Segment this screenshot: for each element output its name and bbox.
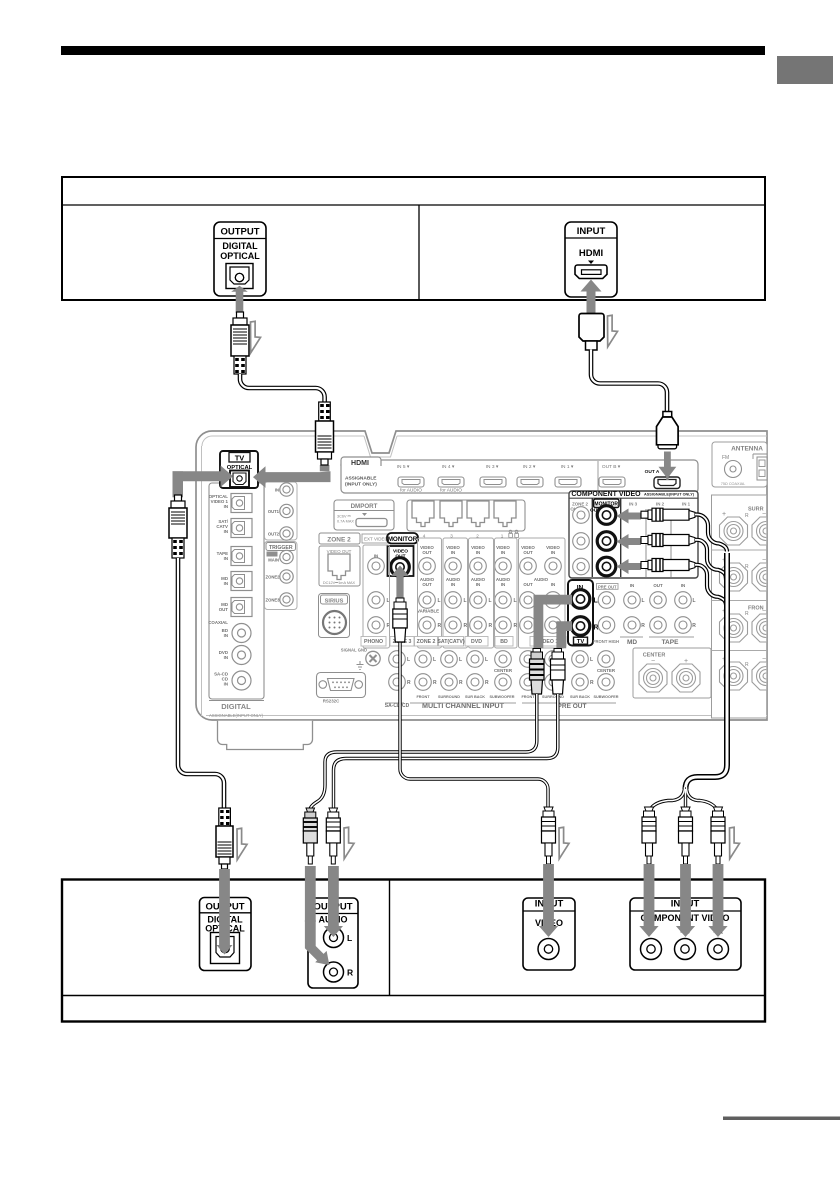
svg-text:TRIGGER: TRIGGER [269,545,293,551]
svg-text:SIRIUS: SIRIUS [325,599,344,605]
bottom box [62,880,765,1022]
svg-text:IN: IN [224,581,228,586]
svg-text:ZONE2: ZONE2 [266,575,281,580]
svg-text:SA-CD/CD: SA-CD/CD [385,703,410,709]
gray arrow up into monitor video out [391,566,409,599]
optical cable from TV down to receiver [240,374,325,403]
svg-text:IN: IN [224,504,228,509]
receiver outline [196,431,767,720]
DIGITAL section box [209,483,264,718]
component cables to bundle [695,515,727,605]
svg-text:75Ω COAXIAL: 75Ω COAXIAL [721,482,746,486]
svg-text:MULTI CHANNEL INPUT: MULTI CHANNEL INPUT [422,701,505,710]
svg-text:PRE OUT: PRE OUT [558,703,587,710]
svg-text:0.7A MAX: 0.7A MAX [337,520,354,524]
svg-text:for AUDIO: for AUDIO [440,488,462,494]
svg-text:FRONT: FRONT [521,695,535,699]
svg-text:AUDIO: AUDIO [534,577,549,582]
left long optical cable gray elbow arrow into TV OPTICAL [173,466,234,488]
svg-text:SURROUND: SURROUND [438,695,460,699]
audio plug L (striped) into elbow [530,649,545,695]
optical plug below TV output (pointing up) [231,312,249,374]
svg-text:3C6V ⎓: 3C6V ⎓ [337,515,351,519]
gray arrow up into TV optical jack [231,286,248,313]
svg-text:(INPUT ONLY): (INPUT ONLY) [345,482,377,488]
svg-text:L: L [514,598,517,604]
MD / TAPE columns [620,583,696,646]
svg-text:OUT A: OUT A [645,469,660,475]
multi channel / pre out grid [385,651,619,710]
long optical cable down the left [178,558,224,808]
svg-text:IN: IN [275,488,279,493]
TV box divider [418,205,420,300]
svg-text:IN: IN [224,556,228,561]
svg-text:ASSIGNABLE(INPUT ONLY): ASSIGNABLE(INPUT ONLY) [644,493,695,497]
svg-text:SUBWOOFER: SUBWOOFER [593,695,618,699]
svg-text:L: L [459,657,462,663]
svg-text:DMPORT: DMPORT [351,503,378,510]
svg-text:IN: IN [501,582,505,587]
svg-text:R: R [745,513,749,519]
svg-text:IN 3: IN 3 [629,502,638,507]
svg-text:OUT2: OUT2 [268,532,280,537]
RS232C [317,673,366,704]
EXT VIDEO label [362,534,390,543]
SIRIUS [319,594,350,638]
outline arrow beside HDMI plug [608,315,618,347]
HDMI section on receiver [341,457,698,494]
svg-text:R: R [438,623,442,629]
svg-text:OUT: OUT [523,550,533,555]
svg-text:FRONT HIGH: FRONT HIGH [593,639,619,644]
gray shaft+arrow from bottom optical plug into panel jack [219,869,230,945]
svg-text:FM: FM [722,455,729,461]
svg-text:R: R [745,662,749,668]
left optical plug (pointing down) [169,495,187,558]
svg-text:SAT(CATV): SAT(CATV) [437,639,464,645]
RJ45 block [407,500,525,539]
COMPONENT VIDEO section [569,491,698,578]
svg-text:HDMI: HDMI [351,460,369,467]
svg-text:DIGITAL: DIGITAL [221,702,251,711]
TV outline box [62,177,765,300]
bottom audio plug L (striped) [303,808,317,864]
svg-text:MONITOR: MONITOR [388,536,418,543]
svg-text:COAXIAL: COAXIAL [208,620,228,625]
TV OUTPUT DIGITAL OPTICAL panel [214,222,266,296]
svg-text:ZONE3: ZONE3 [266,598,281,603]
svg-text:for AUDIO: for AUDIO [400,488,422,494]
svg-text:IN: IN [451,550,455,555]
svg-text:L: L [464,598,467,604]
svg-text:ASSIGNABLE(INPUT ONLY): ASSIGNABLE(INPUT ONLY) [209,713,264,718]
svg-text:L: L [641,598,644,604]
MONITOR VIDEO OUT highlight [387,533,418,576]
svg-text:IN: IN [224,529,228,534]
gray arrow from HDMI plug into OUT A [658,452,676,479]
svg-text:L: L [433,657,436,663]
svg-text:DIGITAL: DIGITAL [222,241,258,251]
gray elbow from TV audio L jack to plug [534,595,573,649]
bottom audio plug R (white) [326,808,340,864]
svg-text:SUR BACK: SUR BACK [570,695,590,699]
svg-text:OUT: OUT [422,550,432,555]
TV OPTICAL highlight box on receiver [220,451,258,488]
svg-text:IN: IN [681,583,685,588]
svg-text:SUBWOOFER: SUBWOOFER [489,695,514,699]
top black title bar [61,46,765,55]
DIGITAL optical jacks [208,494,252,691]
video/audio grid [368,545,568,633]
svg-text:R: R [485,680,489,686]
svg-text:OPTICAL: OPTICAL [220,251,260,261]
svg-text:+: + [722,511,726,518]
svg-text:R: R [692,623,696,629]
svg-text:R: R [745,611,749,617]
audio pair cables down-left and to bottom plugs [310,694,558,810]
svg-text:L: L [347,933,352,943]
svg-text:VARIABLE: VARIABLE [417,609,439,614]
outline arrow beside optical plug [251,321,261,353]
svg-text:IN: IN [476,550,480,555]
TV INPUT HDMI panel [565,222,617,297]
svg-text:OUTPUT: OUTPUT [220,227,259,238]
right speaker terminal field (clipped at panel edge) [712,495,781,718]
svg-text:IN 4 ▾: IN 4 ▾ [442,464,455,470]
gray shafts from audio plugs into AUDIO panel [305,866,316,922]
svg-text:PRE OUT: PRE OUT [598,584,617,589]
svg-text:R: R [464,623,468,629]
bottom INPUT COMPONENT VIDEO panel [630,898,741,970]
HDMI plug below TV input [579,314,604,351]
optical plug 2 from TV (pointing down) with gray elbow arrow [320,465,330,471]
ANTENNA section [712,442,767,487]
svg-text:R: R [641,623,645,629]
svg-text:BD: BD [500,639,508,645]
svg-text:OUT: OUT [523,582,533,587]
svg-text:IN 5 ▾: IN 5 ▾ [397,464,410,470]
svg-text:PHONO: PHONO [364,639,383,645]
CENTER speaker terminals [633,648,711,698]
svg-text:L: L [692,598,695,604]
component plugs (horizontal, pointing left) [641,508,695,521]
svg-text:IN: IN [451,582,455,587]
right edge gray index tab [777,56,833,84]
svg-text:IN 2: IN 2 [656,502,665,507]
svg-text:L: L [485,657,488,663]
PRE OUT labels [593,584,619,645]
svg-text:R: R [459,680,463,686]
svg-text:IN: IN [501,550,505,555]
audio plug R (white) into elbow [551,649,566,695]
svg-text:IN: IN [551,550,555,555]
video plug below monitor out [393,598,407,642]
svg-text:INPUT: INPUT [577,226,606,237]
svg-text:IN 1: IN 1 [682,502,691,507]
svg-text:HDMI: HDMI [579,248,603,259]
svg-text:ANTENNA: ANTENNA [731,446,763,453]
svg-text:SUR BACK: SUR BACK [465,695,485,699]
svg-text:TV: TV [235,454,245,463]
svg-text:SIGNAL GND: SIGNAL GND [341,648,367,653]
svg-text:IN: IN [551,582,555,587]
svg-text:IN 1 ▾: IN 1 ▾ [561,464,574,470]
svg-text:DVD: DVD [471,639,482,645]
svg-text:R: R [347,968,353,978]
svg-text:OUT: OUT [653,583,663,588]
IR/trigger column [265,482,298,610]
gray arrow up into TV HDMI jack [581,280,602,315]
svg-text:COMPONENT VIDEO: COMPONENT VIDEO [571,491,641,498]
svg-text:OUT: OUT [422,582,432,587]
svg-text:IN 2 ▾: IN 2 ▾ [523,464,536,470]
svg-text:VIDEO OUT: VIDEO OUT [327,549,352,554]
HDMI plug 2 into receiver OUT A [657,412,679,449]
gray arrows into component MONITOR OUT jacks [617,509,642,524]
DMPORT [334,500,394,530]
svg-text:SURROUND: SURROUND [542,695,564,699]
svg-text:OUT B ▾: OUT B ▾ [602,464,621,470]
input group label boxes [361,637,566,647]
svg-text:OUT: OUT [219,607,229,612]
svg-text:ASSIGNABLE: ASSIGNABLE [345,476,377,482]
receiver foot [218,721,313,750]
HDMI cable down to receiver [591,350,667,413]
svg-text:IN: IN [224,633,228,638]
svg-text:L: L [438,598,441,604]
video cable from monitor out to bottom [400,640,548,807]
svg-text:EXT VIDEO: EXT VIDEO [364,537,388,542]
svg-text:IN: IN [476,582,480,587]
TV audio IN highlight [568,580,599,646]
ZONE 2 [319,533,360,586]
svg-text:TAPE: TAPE [662,639,680,646]
SIGNAL GND [341,648,380,670]
svg-text:IN: IN [224,655,228,660]
svg-text:L: L [407,657,410,663]
svg-text:TV: TV [577,639,585,645]
svg-text:ZONE 2: ZONE 2 [327,537,351,544]
upper grid column boxes [363,538,565,648]
gray elbow from TV audio R jack to plug [556,621,572,648]
svg-text:MD: MD [627,639,637,646]
bottom-right gray rule [723,1117,840,1121]
bottom OUTPUT AUDIO panel [308,898,358,988]
bottom component plugs Y Pb Pr [642,807,656,864]
svg-text:IN: IN [224,682,228,687]
svg-text:L: L [590,657,593,663]
svg-text:ZONE 2: ZONE 2 [417,639,436,645]
TV box header line [62,204,765,206]
tv optical jack circle over arrow [235,273,243,281]
svg-text:R: R [489,623,493,629]
bottom OUTPUT DIGITAL OPTICAL panel [200,898,252,971]
svg-text:DC12V⎓1mA MAX: DC12V⎓1mA MAX [323,581,356,585]
svg-text:R: R [590,680,594,686]
svg-text:R: R [433,680,437,686]
svg-text:MAIN: MAIN [268,558,279,563]
svg-text:FRONT: FRONT [416,695,430,699]
input group labels [364,639,558,645]
bottom INPUT VIDEO panel [523,898,575,970]
svg-text:IN 3 ▾: IN 3 ▾ [486,464,499,470]
svg-text:CENTER: CENTER [494,668,513,673]
svg-text:IN: IN [630,583,634,588]
svg-text:CENTER: CENTER [597,668,616,673]
svg-text:OUT1: OUT1 [268,509,280,514]
svg-text:R: R [407,680,411,686]
bottom video plug [542,807,556,864]
svg-text:RS232C: RS232C [323,699,340,704]
component bundle down and split [686,553,728,789]
svg-text:L: L [489,598,492,604]
bottom optical plug [216,808,233,869]
